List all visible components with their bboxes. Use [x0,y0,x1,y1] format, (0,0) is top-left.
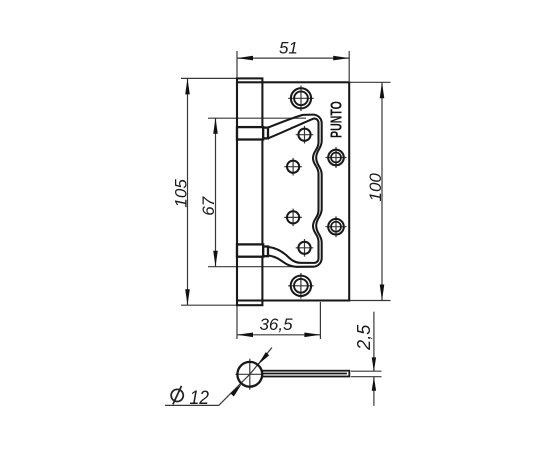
svg-text:36,5: 36,5 [259,315,293,334]
svg-text:105: 105 [171,179,190,208]
svg-text:100: 100 [366,173,385,202]
svg-text:PUNTO: PUNTO [327,101,345,138]
svg-text:12: 12 [189,387,208,409]
svg-text:67: 67 [199,196,218,215]
svg-text:2,5: 2,5 [354,324,374,351]
svg-text:51: 51 [279,38,298,57]
